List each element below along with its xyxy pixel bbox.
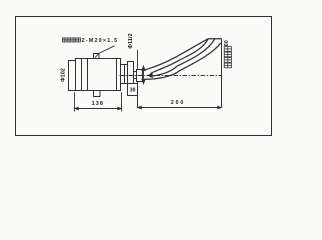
centerline (dashed) [120, 75, 222, 77]
cable curve 3 [151, 39, 215, 77]
cable direction arrowhead [147, 73, 153, 78]
left flange line 2 [87, 59, 89, 91]
svg-text:30: 30 [130, 88, 136, 94]
dimension 138 extension line right [121, 92, 123, 111]
bottom drain boss [94, 91, 101, 97]
left flange line 1 [81, 59, 83, 91]
svg-text:138: 138 [92, 101, 104, 107]
paper background [0, 0, 322, 151]
label text 出线螺母 (glyph blocks) [62, 38, 80, 42]
cable curve 1 (top) [144, 39, 222, 71]
svg-text:Φ102: Φ102 [61, 68, 67, 82]
svg-text:60: 60 [224, 40, 230, 46]
motor body left end cap [69, 61, 76, 91]
leader line from Φ11/2 to nut [137, 50, 139, 70]
cable curve 4 (bottom) [144, 43, 221, 79]
dimension 138 extension line left [74, 92, 76, 111]
dimension 30 box bottom line [128, 95, 138, 97]
step inner line [124, 65, 126, 84]
label 弯曲半径 (vertical glyph blocks) [224, 47, 231, 68]
gland nut [137, 70, 143, 82]
dimension 30 box left extension [127, 84, 129, 96]
gland neck [134, 72, 137, 79]
motor body cylinder [76, 59, 121, 91]
frame border [16, 17, 272, 136]
diameter double arrow at gland [142, 66, 145, 84]
top outlet boss [94, 54, 100, 59]
flange plate [128, 62, 134, 84]
svg-text:Φ11/2: Φ11/2 [128, 33, 134, 48]
dimension line 200 [138, 106, 222, 108]
svg-text:2-M20×1.5: 2-M20×1.5 [82, 38, 118, 44]
right step block [121, 65, 128, 84]
cable end extension line [221, 39, 223, 108]
leader line to outlet boss [95, 46, 115, 58]
svg-text:200: 200 [171, 100, 185, 106]
dimension 30 box top line [128, 83, 138, 85]
dimension 30 box right extension [137, 82, 139, 108]
cable curve 2 [151, 39, 209, 73]
right flange line [116, 59, 118, 91]
dimension line 138 [75, 107, 122, 109]
